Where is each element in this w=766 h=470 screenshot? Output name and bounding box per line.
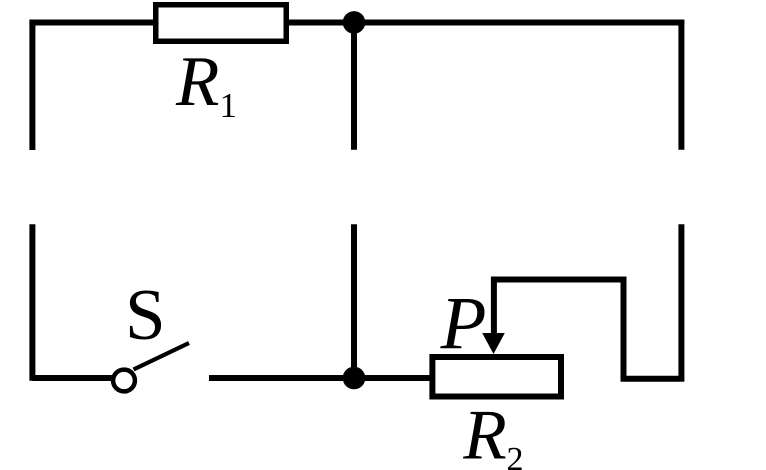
switch S contact circle (113, 370, 135, 392)
wire right vertical upper segment (678, 20, 684, 150)
switch S lever (134, 343, 190, 370)
wire left vertical lower segment (29, 224, 35, 380)
wire wiper loop (494, 280, 684, 379)
resistor R1 (156, 5, 287, 42)
svg-text:1: 1 (220, 86, 238, 125)
wire top rail (32, 20, 684, 23)
svg-text:P: P (440, 283, 487, 366)
wire left vertical upper segment (29, 23, 35, 151)
svg-text:R: R (462, 396, 506, 470)
wire bottom left to switch (32, 375, 112, 381)
wiper arrow P head (482, 333, 505, 354)
svg-text:2: 2 (507, 441, 524, 470)
wire middle vertical upper segment (351, 22, 357, 149)
node junction top (343, 11, 366, 34)
wire right vertical lower segment (678, 224, 684, 381)
svg-text:S: S (125, 274, 166, 355)
wire switch to R2 (209, 375, 433, 381)
potentiometer R2 (432, 357, 561, 397)
node junction bottom (343, 367, 366, 390)
svg-text:R: R (175, 43, 219, 121)
wire middle vertical lower segment (351, 224, 357, 378)
